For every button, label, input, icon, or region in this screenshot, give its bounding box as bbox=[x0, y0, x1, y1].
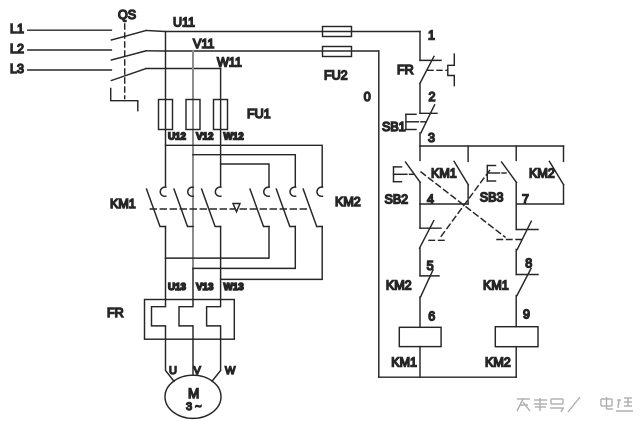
wire KM2 output 1 bbox=[166, 227, 270, 259]
wire SB3 top stub bbox=[515, 146, 517, 160]
switch QS linkage dashed bbox=[124, 24, 126, 99]
wire SB2 top stub bbox=[419, 146, 421, 160]
wire KM1 aux bottom bbox=[467, 185, 469, 204]
svg-text:V11: V11 bbox=[193, 37, 214, 51]
contactor KM1 main contact 2 bbox=[174, 187, 193, 226]
switch QS pole 1 blade bbox=[111, 31, 146, 41]
relay FR dashed link bbox=[428, 69, 448, 71]
wire control phase line corner bbox=[419, 32, 421, 61]
contact KM1 aux blade bbox=[454, 161, 468, 184]
svg-text:W11: W11 bbox=[217, 56, 242, 70]
svg-text:W12: W12 bbox=[224, 132, 245, 143]
wire L3 line bbox=[28, 69, 112, 71]
wire V13 vertical lower bbox=[192, 268, 194, 299]
contact SB2-NC tick bbox=[516, 229, 538, 231]
coil KM1 bbox=[399, 327, 441, 346]
button SB2 actuator bbox=[394, 167, 414, 182]
wire node7 bus bbox=[516, 203, 563, 205]
wire V11 line bbox=[146, 50, 379, 52]
relay FR NC contact blade bbox=[420, 56, 434, 83]
contact KM2 aux blade bbox=[549, 161, 563, 184]
wire coil1 to bus bbox=[419, 347, 421, 378]
svg-text:KM1: KM1 bbox=[391, 356, 417, 370]
wire 4-down bbox=[419, 204, 421, 228]
wire KM2 output 3 bbox=[221, 227, 323, 280]
wire 1-2 bbox=[419, 84, 421, 114]
svg-text:3: 3 bbox=[428, 131, 435, 145]
coil KM2 bbox=[495, 327, 538, 347]
contact KM2-NC tick bbox=[420, 275, 439, 277]
thermal relay FR box bbox=[145, 300, 235, 340]
wire cross U12 to KM2 right bbox=[166, 145, 323, 186]
wire U11 drop bbox=[165, 32, 167, 187]
svg-text:U12: U12 bbox=[168, 132, 187, 143]
svg-text:0: 0 bbox=[364, 90, 371, 104]
svg-text:3 ~: 3 ~ bbox=[186, 401, 202, 413]
FR heater 1 bbox=[152, 300, 166, 340]
svg-text:V12: V12 bbox=[196, 132, 214, 143]
contact KM1-NC tick bbox=[516, 274, 538, 276]
svg-text:L2: L2 bbox=[10, 42, 24, 56]
wire SB2 bottom bbox=[419, 183, 421, 205]
contact KM2-NC blade bbox=[421, 270, 434, 297]
svg-text:9: 9 bbox=[523, 308, 530, 322]
svg-text:KM2: KM2 bbox=[386, 279, 412, 293]
svg-text:KM1: KM1 bbox=[483, 279, 509, 293]
svg-text:FR: FR bbox=[397, 63, 414, 77]
svg-text:1: 1 bbox=[428, 29, 435, 43]
svg-text:U11: U11 bbox=[173, 16, 195, 30]
button SB3 actuator bbox=[487, 166, 506, 182]
FR heater 2 bbox=[179, 300, 193, 340]
svg-text:QS: QS bbox=[118, 8, 136, 22]
contactor KM2 main contact 2 bbox=[276, 187, 295, 226]
contact SB3-NC tick bbox=[420, 227, 441, 229]
svg-text:KM1: KM1 bbox=[110, 197, 136, 211]
contactor KM2 main contact 1 bbox=[250, 187, 269, 226]
svg-text:L1: L1 bbox=[10, 22, 24, 36]
motor M circle bbox=[165, 375, 221, 418]
switch QS pole 3 blade bbox=[111, 69, 146, 81]
svg-text:U13: U13 bbox=[168, 282, 187, 293]
wire to node 9 bbox=[515, 296, 517, 327]
fuse FU1 element 2 bbox=[186, 100, 200, 130]
wire V11 drop (gray) bbox=[192, 51, 194, 268]
svg-text:L3: L3 bbox=[10, 62, 24, 76]
contact KM2 aux stub bbox=[563, 146, 565, 161]
wire W11 line bbox=[146, 68, 221, 70]
contactor KM1 main contact 1 bbox=[147, 187, 166, 226]
wire to node 6 bbox=[419, 297, 421, 327]
svg-text:FR: FR bbox=[107, 306, 124, 320]
relay FR NC contact tick bbox=[420, 59, 441, 61]
contact KM1 aux stub bbox=[467, 146, 469, 161]
svg-text:SB1: SB1 bbox=[382, 120, 406, 134]
svg-text:KM1: KM1 bbox=[431, 167, 457, 181]
button SB2 blade bbox=[406, 162, 421, 183]
wire 2-3 bbox=[419, 133, 421, 146]
svg-text:2: 2 bbox=[429, 90, 436, 104]
dashed interlock SB2 to right branch bbox=[421, 172, 523, 240]
svg-text:M: M bbox=[188, 386, 199, 401]
FR heater 3 bbox=[207, 300, 221, 340]
dashed linkage KM1-KM2 bbox=[150, 208, 310, 210]
svg-text:W: W bbox=[225, 365, 236, 377]
contact SB2-NC blade bbox=[517, 221, 531, 249]
contact KM1-NC blade bbox=[517, 269, 531, 296]
fuse FU2 lower bbox=[323, 47, 352, 57]
fuse FU2 upper bbox=[323, 27, 352, 37]
watermark bbox=[517, 397, 633, 412]
wire to node 5 bbox=[419, 248, 421, 276]
svg-text:FU2: FU2 bbox=[324, 69, 348, 83]
wire node4 bus bbox=[420, 203, 468, 205]
wire cross V12 to KM2 middle bbox=[193, 155, 295, 187]
wire to motor V bbox=[192, 339, 194, 375]
svg-text:V13: V13 bbox=[196, 282, 214, 293]
wire L1 line bbox=[28, 29, 112, 31]
button SB3 blade bbox=[502, 162, 517, 183]
wire 0 line vertical bbox=[378, 51, 380, 377]
wire L2 line bbox=[28, 49, 112, 51]
wire bottom bus bbox=[379, 376, 516, 378]
fuse FU1 element 3 bbox=[214, 100, 228, 130]
relay FR trip element bbox=[448, 54, 455, 86]
dashed interlock SB3 to left branch bbox=[426, 171, 490, 241]
wire to motor U bbox=[166, 339, 175, 381]
contact SB3-NC blade bbox=[420, 221, 434, 249]
switch QS handle hook bbox=[111, 89, 138, 111]
wire W11 drop bbox=[220, 69, 222, 187]
fuse FU1 element 1 bbox=[159, 100, 173, 130]
svg-text:6: 6 bbox=[428, 310, 435, 324]
linkage triangle bbox=[233, 204, 240, 212]
wire to node 8 bbox=[515, 250, 517, 275]
wire SB3 bottom bbox=[515, 183, 517, 205]
wire to motor W bbox=[212, 339, 221, 381]
svg-text:KM2: KM2 bbox=[485, 356, 511, 370]
svg-text:KM2: KM2 bbox=[335, 195, 361, 209]
wire U13 vertical bbox=[165, 227, 167, 300]
wire W13 vertical bbox=[220, 227, 222, 300]
switch QS pole 2 blade bbox=[111, 51, 146, 60]
button SB1 blade bbox=[421, 105, 435, 133]
svg-text:KM2: KM2 bbox=[529, 167, 555, 181]
svg-text:SB2: SB2 bbox=[385, 193, 409, 207]
wire coil2 to bus bbox=[515, 347, 517, 378]
wire KM2 aux bottom bbox=[563, 185, 565, 204]
svg-text:W13: W13 bbox=[224, 282, 245, 293]
wire cross W12 to KM2 left bbox=[221, 164, 269, 187]
contactor KM2 main contact 3 bbox=[303, 187, 322, 226]
wire U11 line bbox=[146, 31, 420, 32]
button SB1 tick bbox=[420, 112, 437, 114]
svg-text:U: U bbox=[169, 365, 177, 377]
button SB1 actuator bbox=[406, 114, 426, 129]
svg-text:SB3: SB3 bbox=[480, 191, 504, 205]
wire 7-down bbox=[515, 204, 517, 230]
svg-text:FU1: FU1 bbox=[247, 107, 271, 121]
wire node3 bus bbox=[420, 145, 564, 147]
wire KM2 output 2 bbox=[193, 227, 295, 269]
contactor KM1 main contact 3 bbox=[202, 187, 221, 226]
